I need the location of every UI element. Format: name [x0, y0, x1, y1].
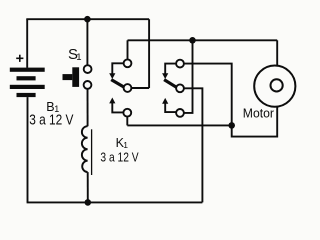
relay contact set 2: up arrowhead	[162, 98, 168, 104]
battery B1: plate 1 long	[10, 68, 45, 72]
battery B1: plate 2 short	[17, 76, 36, 80]
node D: junction dot bottom rail / K1	[85, 199, 92, 206]
relay coil K1: core line	[91, 129, 93, 175]
relay contact set 2: bottom circle	[176, 109, 184, 117]
svg-text:1: 1	[76, 52, 81, 63]
battery B1: plus sign	[16, 57, 23, 59]
relay contact set 2: down arrowhead	[162, 73, 168, 79]
wire: S1 to K1 coil	[87, 89, 89, 126]
wire: bottom rail y=202	[27, 201, 203, 203]
wire: cross rail y=125.4	[127, 124, 231, 126]
wire: motor bottom return	[232, 106, 278, 136]
wire: battery positive riser	[26, 19, 28, 68]
relay contact set 1: bottom circle	[123, 109, 131, 117]
wire: left bottom circle drop	[126, 117, 128, 126]
wire: left relay middle contact to vertical	[131, 87, 149, 89]
wire: motor top riser	[276, 40, 278, 66]
wire: vertical from top rail down to left pole wire	[148, 19, 150, 88]
relay contact set 1: moving blade	[111, 80, 124, 87]
node C: junction dot cross rail / motor bottom	[228, 122, 235, 129]
wire: right top circle to motor-bottom net	[184, 64, 232, 126]
relay contact set 2: moving blade	[164, 80, 176, 88]
relay contact set 1: up arrowhead	[109, 98, 115, 104]
switch S1: plunger stem	[63, 74, 73, 80]
svg-text:3 a 12 V: 3 a 12 V	[29, 113, 74, 129]
svg-text:1: 1	[123, 140, 128, 150]
relay contact set 2: up arrow stem to bottom circle	[165, 103, 176, 112]
switch S1: top contact circle	[84, 65, 92, 73]
switch S1: plunger bar	[72, 67, 79, 87]
wire: K1 coil to bottom rail	[87, 172, 89, 202]
relay contact set 2: pole elbow from top circle	[165, 64, 176, 74]
relay contact set 1: top circle	[124, 59, 132, 67]
wire: S1 riser from top rail	[86, 19, 88, 65]
wire: second rail y=40	[128, 39, 278, 41]
switch S1: bottom contact circle	[84, 81, 92, 89]
wire: left relay top contact riser	[127, 40, 129, 59]
svg-text:3 a 12 V: 3 a 12 V	[100, 150, 139, 164]
wire: right middle circle to bottom rail	[184, 88, 203, 202]
relay contact set 1: pole elbow from top circle	[112, 63, 123, 74]
wire: battery negative riser	[27, 97, 29, 202]
motor M1: outer circle	[254, 66, 295, 107]
relay contact set 1: up arrow stem to bottom circle	[112, 103, 123, 113]
node A: junction dot top rail / S1	[84, 16, 91, 23]
relay contact set 1: down arrowhead	[109, 73, 115, 79]
node B: junction dot second rail / right relay	[189, 37, 196, 44]
relay contact set 1: middle circle	[124, 84, 132, 92]
wire: right bottom circle riser to node B	[184, 40, 193, 113]
relay contact set 2: top circle	[176, 60, 184, 68]
battery B1: plate 3 long	[10, 85, 45, 89]
relay coil K1: winding bumps	[82, 126, 88, 172]
relay contact set 2: middle circle	[176, 84, 184, 92]
battery B1: plate 4 short	[17, 93, 36, 97]
svg-text:Motor: Motor	[243, 107, 274, 121]
motor M1: inner hub circle	[271, 79, 283, 91]
wire: top rail y=19	[26, 18, 149, 20]
